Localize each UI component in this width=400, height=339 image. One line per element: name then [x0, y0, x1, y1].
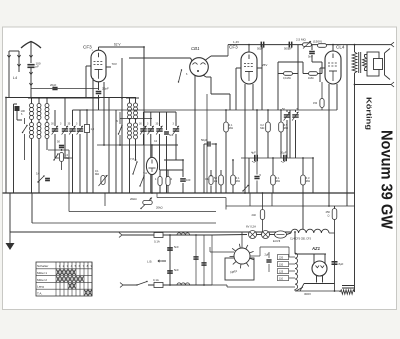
ground symbol	[6, 232, 15, 250]
lamp 2	[257, 231, 270, 239]
wire main bus	[3, 192, 355, 194]
capacitor 8uF	[332, 262, 344, 266]
wire ground bus	[10, 231, 291, 233]
svg-text:T.A: T.A	[143, 171, 147, 175]
resistor top right	[318, 44, 327, 48]
wire CB1 pins	[195, 56, 228, 110]
svg-text:0,1A: 0,1A	[153, 278, 159, 282]
svg-text:pF: pF	[36, 65, 40, 69]
capacitor 2uF	[265, 252, 272, 272]
label Korting	[365, 97, 374, 130]
heater chain winding	[287, 229, 335, 240]
tube CB1 oscillator	[190, 46, 209, 76]
svg-text:MΩ: MΩ	[95, 172, 99, 176]
resistor det c	[205, 170, 213, 193]
capacitor 100pF (antenna)	[27, 62, 40, 69]
wire right mid verticals	[278, 45, 322, 110]
antenna	[21, 42, 41, 64]
svg-text:0,1MΩ: 0,1MΩ	[283, 76, 291, 80]
svg-text:Schalter: Schalter	[37, 264, 48, 268]
trimmer C5	[62, 98, 69, 158]
wire 144 vertical	[143, 47, 145, 193]
wire bus 3	[226, 198, 355, 210]
capacitor 5nF af	[254, 158, 261, 193]
wire selector top	[241, 232, 243, 248]
resistor 50k	[214, 170, 223, 193]
trimmer C4	[52, 110, 73, 158]
svg-text:Mittel 1: Mittel 1	[37, 271, 47, 275]
choke bottom	[177, 283, 190, 285]
resistor 1M horizontal b	[303, 72, 322, 80]
coil L3b	[128, 123, 132, 193]
svg-text:kΩ: kΩ	[214, 179, 217, 183]
svg-text:20kΩ: 20kΩ	[156, 206, 163, 210]
svg-text:0,1: 0,1	[205, 177, 209, 181]
switch pickup	[242, 185, 248, 192]
wire CB1 join	[195, 94, 230, 193]
label misc marks	[21, 73, 188, 143]
label 150V	[313, 40, 322, 44]
wire antenna stem	[29, 55, 32, 98]
coil L4a	[134, 98, 138, 123]
terminal antenna input	[7, 51, 19, 98]
resistor 0.1M b	[231, 160, 240, 193]
resistor det b	[166, 170, 173, 193]
label trimmer row 2	[139, 123, 175, 126]
mains plug box	[225, 258, 254, 280]
capacitor 4uF	[241, 151, 313, 163]
resistor 240	[252, 193, 265, 232]
tube AZ1 rectifier	[311, 246, 327, 276]
terminal earth input	[17, 51, 20, 72]
wire heater feed	[212, 235, 247, 286]
svg-text:MΩ: MΩ	[229, 126, 233, 130]
resistor field coil	[340, 290, 355, 294]
resistor 0.2M	[260, 110, 270, 158]
capacitor 20pF under tube1	[96, 82, 109, 110]
svg-text:Ω: Ω	[328, 213, 330, 217]
wire speaker top terminal	[355, 42, 395, 47]
svg-text:70V: 70V	[112, 62, 117, 66]
tap 125	[278, 269, 296, 274]
wire right B+ rail	[354, 85, 356, 293]
capacitor mains b	[167, 268, 179, 273]
switch osc band	[118, 112, 123, 145]
svg-text:62 V: 62 V	[114, 43, 121, 47]
wire hf bus	[86, 109, 337, 111]
svg-text:L.B.: L.B.	[147, 260, 153, 264]
wire selector links	[250, 247, 289, 257]
switch TA2	[139, 171, 147, 187]
speaker frame	[367, 52, 379, 76]
wire avc bus	[6, 98, 136, 194]
svg-text:MΩ: MΩ	[276, 179, 280, 183]
wire tube1 left pin	[92, 78, 94, 193]
switch TA1	[130, 157, 138, 175]
resistor box 100	[85, 110, 95, 193]
svg-text:1MΩ: 1MΩ	[308, 76, 314, 80]
svg-text:MΩ: MΩ	[236, 179, 240, 183]
svg-text:Mittel 2: Mittel 2	[37, 278, 47, 282]
wire tube1 grid left	[86, 66, 91, 98]
trimmer C11	[147, 112, 154, 193]
wire speaker bottom terminal	[355, 82, 395, 87]
svg-text:25V: 25V	[262, 63, 267, 67]
label LB	[147, 260, 166, 264]
svg-text:220: 220	[279, 256, 284, 259]
capacitor mains c	[193, 235, 198, 285]
resistor 0.5M	[279, 110, 288, 158]
switch band selector	[22, 118, 28, 160]
label Novum 39 GW	[378, 130, 395, 229]
svg-text:MΩ: MΩ	[306, 179, 310, 183]
wire mains center	[169, 235, 171, 285]
autotransformer winding	[295, 232, 298, 290]
capacitor mains d	[201, 235, 206, 285]
capacitor 10uF	[280, 151, 287, 163]
svg-text:MΩ: MΩ	[260, 126, 264, 130]
svg-text:10μF: 10μF	[280, 151, 287, 155]
trimmer pair top	[282, 107, 299, 158]
coil L2b	[37, 123, 41, 194]
wire top link	[31, 98, 99, 110]
wire B+ bus	[228, 45, 355, 56]
capacitor 5nF	[308, 45, 315, 62]
potentiometer 2.5M	[296, 38, 312, 49]
wire CB2	[97, 145, 152, 193]
speaker magnet	[374, 59, 383, 70]
resistor 450	[326, 206, 337, 220]
wire AZ1 legs	[300, 276, 335, 292]
capacitor 500pF coupling	[284, 42, 292, 51]
wire AZ1 anode feed	[295, 253, 326, 263]
svg-text:50pF: 50pF	[257, 47, 264, 51]
capacitor 20pF top	[31, 83, 99, 90]
wire bus 2	[105, 193, 272, 206]
filter capacitor plates	[342, 286, 354, 289]
capacitor mains a	[167, 245, 179, 250]
wire tube1 top cap to 62V	[99, 47, 145, 58]
svg-text:CL4: CL4	[336, 45, 345, 50]
resistor det a	[155, 170, 162, 193]
svg-text:20pF: 20pF	[50, 83, 57, 87]
tube CF3 second stage	[229, 40, 257, 84]
svg-text:500pF: 500pF	[284, 47, 292, 51]
capacitor det	[180, 160, 191, 193]
wire left cluster bottom	[14, 104, 18, 193]
fuse 0.1A top	[154, 233, 163, 244]
wire coil tops	[28, 97, 50, 99]
svg-text:Novum 39 GW: Novum 39 GW	[378, 130, 395, 229]
svg-text:2,5 MΩ: 2,5 MΩ	[296, 38, 307, 42]
wire mains line 2	[120, 283, 212, 288]
switch band 2	[53, 153, 58, 160]
trimmer C10	[140, 112, 147, 145]
inductor L4 label	[13, 76, 17, 80]
svg-text:L4: L4	[13, 76, 17, 80]
wire bus 5	[32, 222, 216, 224]
resistor 0.1M a	[224, 110, 233, 193]
svg-text:20pF: 20pF	[102, 87, 109, 91]
tube CF3 first stage	[83, 45, 106, 82]
wire into CB1	[129, 58, 192, 61]
wire rectifier rail	[334, 220, 336, 292]
label trimmer row 1	[51, 123, 78, 126]
svg-text:Körting: Körting	[365, 97, 374, 130]
transformer core	[359, 52, 361, 73]
svg-text:4μF: 4μF	[251, 151, 256, 155]
svg-text:1,0: 1,0	[91, 127, 95, 131]
wire mains to box	[212, 285, 295, 287]
wire det links	[152, 145, 183, 198]
svg-text:CB1: CB1	[191, 46, 200, 51]
svg-text:20kΩ: 20kΩ	[130, 197, 137, 201]
capacitor 50pF coupling	[257, 42, 264, 51]
svg-text:240: 240	[252, 213, 257, 217]
switch position table	[36, 262, 93, 296]
svg-text:7,8: 7,8	[130, 157, 134, 161]
tube CL4 output	[325, 45, 345, 85]
choke top	[177, 233, 190, 235]
wire rail 347	[346, 45, 348, 206]
coil L4b	[134, 123, 138, 160]
fuse 0.1A bottom	[153, 278, 163, 288]
wire CL4 pins	[320, 68, 337, 206]
svg-text:300V: 300V	[304, 292, 311, 296]
trimmer C6	[69, 110, 76, 193]
wire coil2 tops	[126, 97, 139, 100]
potentiometer 20k	[130, 197, 152, 209]
svg-text:100: 100	[186, 178, 191, 182]
voltage selector wheel	[230, 244, 254, 269]
label 25V	[257, 63, 267, 68]
coil L3a	[45, 98, 49, 123]
iron core slug	[15, 106, 26, 120]
label 70V	[106, 62, 117, 67]
coil L1a	[30, 98, 34, 123]
wire wheel left	[210, 247, 234, 252]
svg-text:AZ1: AZ1	[311, 246, 321, 251]
svg-text:450: 450	[326, 210, 331, 214]
svg-text:1,4V: 1,4V	[233, 40, 239, 44]
svg-text:8μF: 8μF	[339, 262, 344, 266]
svg-text:CF3: CF3	[229, 45, 238, 50]
svg-text:6V 0,2A: 6V 0,2A	[246, 225, 256, 229]
trimmer C14	[173, 112, 180, 160]
wire tube1 right pin	[104, 82, 116, 193]
trimmer C12	[156, 112, 163, 170]
resistor 20k	[143, 201, 163, 210]
svg-text:150: 150	[313, 102, 318, 105]
wire bus 4	[69, 193, 216, 212]
svg-text:50pF: 50pF	[201, 138, 208, 142]
svg-text:Lang: Lang	[37, 285, 44, 289]
svg-text:EUVII: EUVII	[273, 239, 281, 243]
svg-text:CL4 CF3 CB1 CF3: CL4 CF3 CB1 CF3	[290, 238, 312, 241]
svg-text:(150V): (150V)	[313, 40, 322, 44]
resistor 0.1M c	[271, 158, 280, 193]
lamp 1	[246, 225, 257, 239]
wire bus down left	[10, 193, 32, 232]
coil L1b	[30, 123, 34, 194]
coil L3a	[128, 98, 132, 124]
trimmer C13	[164, 112, 174, 193]
switch osc	[178, 69, 182, 82]
transformer primary winding	[352, 45, 357, 85]
svg-text:5nF: 5nF	[174, 245, 179, 249]
potentiometer 0.1M volume	[95, 169, 108, 186]
wire mid verticals right	[249, 45, 313, 193]
trimmer C7	[77, 110, 84, 193]
capacitor padder	[57, 140, 64, 151]
transformer secondary winding	[363, 55, 370, 71]
svg-text:0,1A: 0,1A	[154, 240, 160, 244]
coil L3b	[45, 123, 49, 151]
wire hf link	[120, 58, 176, 193]
wire psu bottom bus	[295, 287, 340, 291]
wire tube2 top	[248, 45, 250, 52]
resistor 0.3M	[301, 158, 310, 229]
ballast EUVIII	[270, 231, 287, 243]
svg-text:110: 110	[279, 277, 284, 280]
svg-text:T.A.: T.A.	[37, 291, 42, 295]
svg-text:125: 125	[279, 270, 284, 273]
resistor 1M horizontal a	[278, 72, 298, 80]
wire tube2 pins	[236, 68, 253, 193]
label 62V	[114, 43, 121, 47]
capacitor 50pF agc	[201, 138, 216, 193]
speaker cone	[385, 49, 391, 80]
wire mains line 1	[119, 233, 212, 238]
tap 110	[278, 276, 296, 281]
switch mains	[136, 281, 147, 286]
tap 220	[278, 255, 296, 260]
svg-text:5,6: 5,6	[36, 172, 40, 176]
svg-text:150: 150	[279, 263, 284, 266]
tube CB2 detector	[146, 157, 157, 174]
wire CL4 top	[332, 45, 334, 51]
tap 150	[278, 262, 296, 267]
svg-text:5nF: 5nF	[174, 268, 179, 272]
label 300V	[304, 292, 311, 296]
coil L2a	[37, 98, 41, 123]
resistor CL4 cathode	[313, 82, 324, 110]
switch wave band	[36, 172, 50, 183]
svg-text:MΩ: MΩ	[65, 156, 69, 160]
resistor 1M osc	[48, 150, 69, 193]
